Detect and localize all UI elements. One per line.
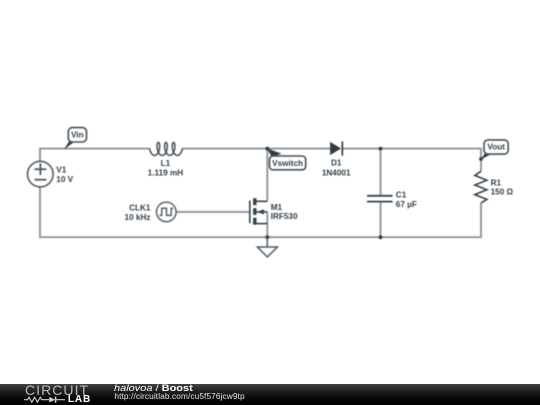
label C1 name and value 67 uF bbox=[396, 190, 417, 209]
net flag Vout bbox=[479, 140, 508, 161]
svg-text:10 kHz: 10 kHz bbox=[125, 213, 151, 222]
svg-text:1.119 mH: 1.119 mH bbox=[148, 169, 184, 178]
svg-text:M1: M1 bbox=[271, 203, 283, 212]
svg-text:Vswitch: Vswitch bbox=[272, 159, 303, 168]
wire C1 top lead bbox=[380, 149, 382, 196]
voltage source V1 bbox=[28, 161, 54, 187]
svg-text:10 V: 10 V bbox=[56, 175, 73, 184]
CircuitLab logo bbox=[24, 0, 26, 1]
wire left vertical V1 bottom to bottom rail, bottom rail to R1 bbox=[40, 187, 481, 237]
svg-text:C1: C1 bbox=[396, 190, 407, 199]
svg-text:CLK1: CLK1 bbox=[129, 203, 151, 212]
resistor R1 bbox=[475, 171, 487, 203]
node M1 source / ground junction bbox=[265, 235, 269, 239]
wire top rail Vswitch node to D1 anode bbox=[267, 148, 330, 150]
net flag Vswitch bbox=[267, 148, 306, 170]
label M1 name and value IRF530 bbox=[271, 203, 298, 221]
svg-text:1N4001: 1N4001 bbox=[322, 168, 351, 177]
label D1 name and value 1N4001 bbox=[322, 159, 351, 178]
wire CLK1 output to M1 gate bbox=[176, 211, 250, 213]
label R1 name and value 150 Ohm bbox=[491, 178, 514, 196]
inductor L1 bbox=[150, 142, 183, 155]
label L1 name and value 1.119 mH bbox=[148, 159, 184, 177]
svg-text:150 Ω: 150 Ω bbox=[491, 188, 514, 197]
svg-text:Vin: Vin bbox=[71, 131, 84, 140]
node C1 bottom junction bbox=[379, 235, 383, 239]
wire M1 drain to Vswitch node bbox=[266, 149, 268, 202]
ground bbox=[257, 237, 277, 257]
svg-text:V1: V1 bbox=[56, 165, 66, 174]
net flag Vin bbox=[64, 128, 87, 150]
wire top rail C1 node to Vout corner, down to R1 bbox=[381, 149, 482, 172]
wire C1 bottom lead bbox=[380, 202, 382, 238]
svg-text:L1: L1 bbox=[161, 159, 171, 168]
svg-text:R1: R1 bbox=[491, 178, 502, 187]
label V1 name and value 10 V bbox=[56, 165, 73, 184]
capacitor C1 bbox=[367, 196, 393, 202]
wire M1 source to bottom rail bbox=[266, 212, 268, 237]
transistor M1 (NMOS) bbox=[250, 198, 267, 225]
svg-text:Vout: Vout bbox=[487, 143, 505, 152]
diode D1 bbox=[330, 141, 342, 155]
node D1-C1 junction top bbox=[379, 147, 383, 151]
svg-text:IRF530: IRF530 bbox=[271, 212, 298, 221]
attribution text bbox=[113, 0, 115, 1]
svg-text:67 µF: 67 µF bbox=[396, 200, 417, 209]
CircuitLab footer bar bbox=[0, 384, 540, 405]
label CLK1 name and value 10 kHz bbox=[125, 203, 151, 222]
node Vswitch junction bbox=[265, 147, 269, 151]
wire top rail L1 to Vswitch node bbox=[182, 148, 267, 150]
svg-text:D1: D1 bbox=[331, 159, 342, 168]
clock source CLK1 bbox=[157, 202, 177, 222]
wire top rail D1 cathode to C1 node bbox=[342, 148, 380, 150]
wire top rail V1 to L1 bbox=[40, 149, 150, 162]
